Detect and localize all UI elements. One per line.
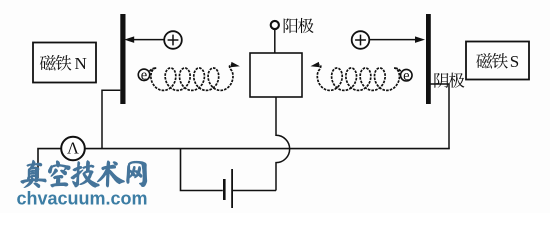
svg-text:Λ: Λ — [67, 139, 79, 158]
label 磁铁 N — [40, 54, 87, 73]
electron cycloid right (mirror) — [315, 65, 401, 90]
battery branch left lead — [181, 149, 223, 191]
ion + left circle — [164, 31, 182, 49]
wire left of ammeter + stub — [38, 149, 61, 178]
label 阳极 — [284, 18, 314, 33]
battery negative plate (short) — [223, 179, 226, 200]
cathode plate right — [426, 14, 431, 104]
arrow to right plate — [370, 39, 417, 41]
battery positive plate (long) — [231, 169, 233, 208]
ammeter A — [61, 137, 85, 161]
wire right plate to down lead — [431, 84, 450, 149]
ion + right circle — [352, 31, 370, 49]
svg-text:N: N — [75, 54, 87, 73]
label 阴极 — [434, 73, 464, 88]
anode terminal circle — [271, 21, 279, 29]
main wire right of ammeter — [85, 148, 450, 150]
anode box — [250, 53, 302, 97]
anode lead down with hop over main wire — [276, 97, 290, 191]
svg-text:e: e — [403, 68, 409, 84]
battery right lead — [233, 190, 276, 192]
cathode plate left — [120, 14, 125, 104]
svg-text:chvacuum.com: chvacuum.com — [17, 189, 148, 209]
wire left plate lead — [102, 90, 120, 148]
magnet N box — [33, 43, 96, 83]
watermark 真空技术网 — [21, 160, 147, 187]
svg-text:e: e — [141, 68, 147, 84]
arrow to left plate — [133, 39, 164, 41]
electron e- circle left — [138, 69, 150, 81]
electron cycloid left — [150, 65, 236, 90]
label 磁铁 S — [476, 52, 519, 71]
wire anode circle to box — [274, 29, 276, 53]
magnet S box — [466, 42, 529, 80]
electron e- circle right — [401, 69, 413, 81]
svg-text:S: S — [510, 52, 519, 71]
